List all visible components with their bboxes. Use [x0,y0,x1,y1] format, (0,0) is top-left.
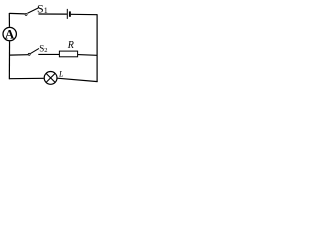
wire top-middle segment [38,13,67,15]
switch S2 pivot contact [28,53,30,55]
wire bottom-left segment [9,77,44,79]
svg-text:L: L [58,70,64,79]
wire top-left segment [9,12,25,15]
wire middle-center segment [38,53,59,55]
svg-text:R: R [67,40,74,51]
wire top-right segment [71,13,97,15]
wire bottom-right segment [57,78,97,81]
wire middle-right segment [78,54,97,57]
switch S1 pivot contact [25,13,27,15]
resistor R [59,51,77,57]
switch S2 lever [30,48,39,53]
battery long plate (+) [66,9,68,19]
wire left side upper [8,13,10,27]
wire right side [96,14,98,82]
switch S1 lever [28,8,39,13]
lamp L [44,72,57,85]
svg-text:A: A [5,27,15,42]
battery short plate (-) [69,11,71,16]
ammeter A1 [3,27,16,40]
wire left side lower [8,41,10,79]
wire middle-left segment [9,54,28,56]
